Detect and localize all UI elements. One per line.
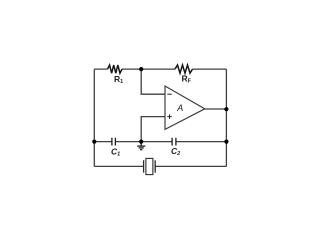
svg-text:A: A: [176, 103, 183, 113]
